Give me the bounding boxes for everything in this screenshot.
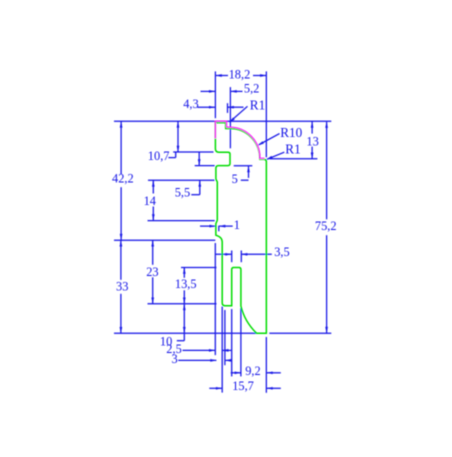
svg-text:10,7: 10,7 — [148, 149, 170, 163]
svg-text:18,2: 18,2 — [229, 67, 251, 81]
svg-text:33: 33 — [116, 279, 128, 293]
svg-text:5: 5 — [232, 172, 238, 186]
svg-text:9,2: 9,2 — [245, 364, 261, 378]
svg-text:4,3: 4,3 — [183, 97, 199, 111]
svg-text:13,5: 13,5 — [175, 277, 197, 291]
svg-text:R1: R1 — [285, 141, 300, 156]
svg-text:R1: R1 — [250, 97, 265, 112]
svg-text:5,2: 5,2 — [244, 81, 260, 95]
svg-text:1: 1 — [234, 218, 240, 232]
svg-text:R10: R10 — [280, 125, 302, 140]
svg-text:3: 3 — [172, 352, 178, 366]
svg-text:13: 13 — [306, 134, 318, 148]
svg-text:75,2: 75,2 — [315, 219, 337, 233]
svg-text:42,2: 42,2 — [112, 172, 134, 186]
svg-text:15,7: 15,7 — [232, 379, 254, 393]
svg-text:14: 14 — [144, 194, 156, 208]
svg-text:5,5: 5,5 — [175, 186, 191, 200]
svg-text:23: 23 — [146, 265, 158, 279]
svg-text:3,5: 3,5 — [274, 245, 290, 259]
